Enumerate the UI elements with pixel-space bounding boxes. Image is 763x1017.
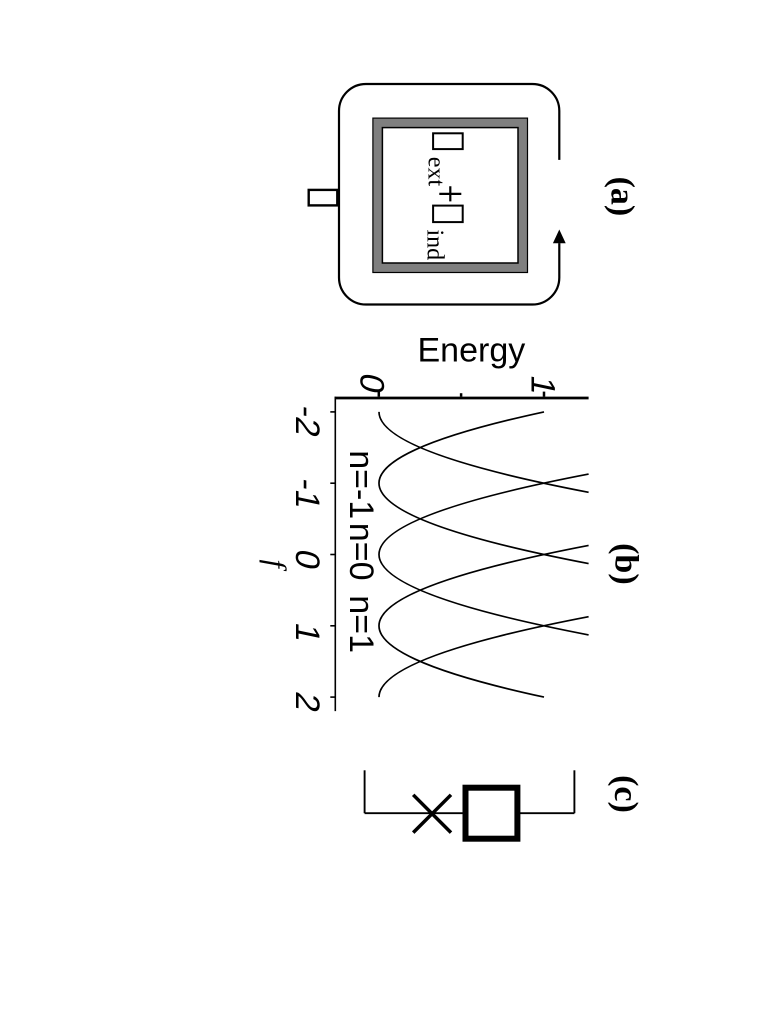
svg-text:0: 0	[353, 370, 391, 397]
svg-text:(b): (b)	[607, 543, 644, 585]
svg-text:Energy: Energy	[418, 332, 526, 370]
svg-text:-1: -1	[288, 475, 326, 513]
svg-text:1: 1	[524, 372, 562, 399]
svg-text:n=-1: n=-1	[342, 450, 380, 519]
svg-text:2: 2	[288, 689, 326, 716]
svg-text:n=0: n=0	[342, 523, 380, 581]
svg-text:-2: -2	[288, 402, 326, 440]
svg-text:ext: ext	[422, 157, 448, 187]
svg-text:(c): (c)	[607, 775, 644, 813]
svg-text:n=1: n=1	[342, 595, 380, 653]
svg-text:0: 0	[288, 546, 326, 573]
svg-text:f: f	[259, 560, 292, 572]
svg-text:ind: ind	[422, 230, 448, 261]
svg-text:1: 1	[288, 620, 326, 647]
svg-text:(a): (a)	[603, 177, 640, 217]
